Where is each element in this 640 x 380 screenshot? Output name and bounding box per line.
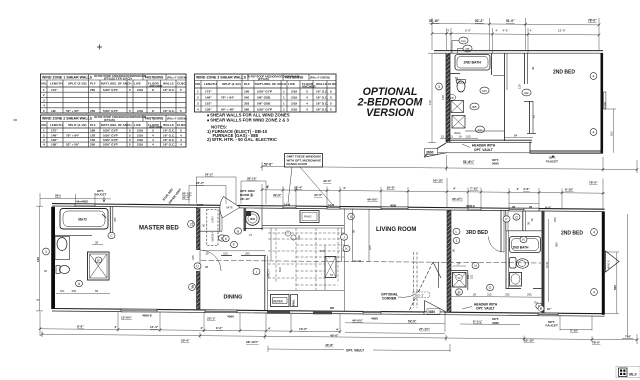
dims under closets (203, 250, 265, 252)
MLS logo box (616, 367, 640, 378)
svg-text:SPLIT (2-1/2): SPLIT (2-1/2) (68, 82, 86, 86)
svg-text:B: B (97, 258, 99, 262)
svg-text:MLS: MLS (629, 373, 637, 377)
svg-text:2ND BATH: 2ND BATH (513, 246, 530, 250)
svg-text:172": 172" (51, 88, 58, 92)
svg-text:16" O.C.: 16" O.C. (163, 88, 175, 92)
svg-text:1: 1 (283, 101, 285, 105)
svg-text:DRY: DRY (211, 216, 215, 222)
svg-text:152": 152" (205, 101, 212, 105)
bath right wall (504, 53, 506, 141)
svg-text:2ND BED: 2ND BED (553, 70, 575, 76)
bath/tub wall (491, 53, 493, 75)
shower master with X (88, 252, 110, 280)
3rd bed left shear wall (hatched) (447, 210, 451, 312)
svg-text:FAUCET: FAUCET (95, 193, 107, 197)
circled P (503, 216, 510, 222)
toilet upper bath (457, 81, 465, 92)
circled 3 main (453, 237, 459, 243)
svg-text:2/19: 2/19 (291, 95, 297, 99)
top wall upper plan (434, 50, 603, 52)
shear wall table 3 (195, 74, 338, 112)
svg-text:(P/N x 4" SCREW): (P/N x 4" SCREW) (167, 76, 187, 79)
optional corner dashed wall verticals (413, 252, 415, 308)
wall master bath / master bed (109, 207, 111, 234)
svg-text:130: 130 (36, 257, 40, 262)
door arc master bed (200, 250, 221, 271)
svg-text:78'-0": 78'-0" (589, 180, 598, 184)
left shear wall (hatched) upper plan (446, 53, 450, 142)
svg-text:4: 4 (197, 107, 199, 111)
svg-text:2: 2 (43, 133, 45, 137)
pantry (291, 295, 298, 307)
circled J (341, 234, 348, 240)
svg-text:BB: BB (472, 105, 476, 109)
svg-text:4'-6": 4'-6" (503, 29, 509, 33)
svg-text:5'-5": 5'-5" (465, 29, 471, 33)
svg-text:1: 1 (43, 129, 45, 133)
svg-text:810: 810 (278, 267, 282, 272)
svg-text:5: 5 (330, 101, 332, 105)
water heater closet walls (244, 208, 247, 231)
svg-text:■ SHEAR WALLS FOR WIND ZONE 2: ■ SHEAR WALLS FOR WIND ZONE 2 & 3 (207, 117, 290, 122)
svg-text:78" + 84": 78" + 84" (221, 95, 235, 99)
svg-text:321: 321 (470, 274, 474, 279)
svg-text:36x72: 36x72 (78, 218, 87, 222)
svg-text:4': 4' (496, 29, 499, 33)
bath interior dims (37, 241, 99, 303)
circled 3 left (436, 83, 443, 90)
hall/dining wall (241, 255, 266, 257)
circled E (219, 235, 226, 241)
svg-text:8: 8 (152, 109, 154, 113)
2nd bed left wall main (542, 211, 545, 313)
svg-text:(P/N x 4" SCREW): (P/N x 4" SCREW) (167, 118, 187, 121)
svg-text:20'-4": 20'-4" (182, 196, 191, 200)
svg-text:WIND ZONE 1 SHEAR WALLS: WIND ZONE 1 SHEAR WALLS (42, 75, 93, 79)
circled CC (475, 126, 484, 133)
svg-text:15: 15 (441, 134, 445, 138)
svg-text:REFER: REFER (273, 299, 282, 303)
svg-text:52" + 56": 52" + 56" (66, 143, 80, 147)
svg-text:5: 5 (129, 129, 131, 133)
svg-text:5/16" GYP: 5/16" GYP (257, 107, 272, 111)
svg-text:5/16" GYP: 5/16" GYP (103, 109, 118, 113)
svg-text:O: O (489, 286, 492, 290)
svg-text:3080-E: 3080-E (466, 204, 475, 208)
svg-text:105: 105 (466, 134, 471, 138)
svg-text:4': 4' (343, 186, 346, 190)
svg-text:4: 4 (152, 133, 154, 137)
svg-text:51'-6½": 51'-6½" (463, 160, 475, 164)
stray plus mark (97, 45, 102, 50)
svg-text:21: 21 (450, 134, 454, 138)
svg-text:138: 138 (441, 95, 445, 100)
bottom wall main plan (52, 309, 605, 314)
svg-text:16" O.C.: 16" O.C. (316, 95, 328, 99)
svg-text:28: 28 (473, 292, 476, 296)
svg-text:L: L (456, 230, 458, 234)
svg-text:1496: 1496 (603, 101, 607, 108)
svg-text:20'-4": 20'-4" (181, 338, 190, 342)
svg-text:3: 3 (152, 129, 154, 133)
svg-text:2/19: 2/19 (137, 143, 143, 147)
svg-text:5/16" GYP: 5/16" GYP (103, 133, 118, 137)
svg-text:4': 4' (266, 186, 269, 190)
svg-text:PLF: PLF (90, 123, 96, 127)
svg-text:4: 4 (180, 138, 182, 142)
svg-text:(FT/LB): (FT/LB) (258, 77, 269, 81)
svg-text:FP: FP (450, 96, 454, 100)
svg-text:250: 250 (553, 217, 557, 222)
circled 4 upper right a (590, 73, 597, 80)
svg-text:163: 163 (320, 249, 325, 253)
svg-text:55'-10": 55'-10" (429, 19, 440, 23)
svg-text:RANG: RANG (304, 215, 312, 219)
svg-text:4: 4 (306, 107, 308, 111)
NOTES (207, 113, 290, 143)
svg-text:315: 315 (487, 292, 492, 296)
svg-text:(P/N x 4" SCREW): (P/N x 4" SCREW) (310, 77, 330, 80)
svg-text:108": 108" (51, 143, 58, 147)
svg-text:FASTENING: FASTENING (145, 75, 164, 79)
svg-text:2/19: 2/19 (137, 133, 143, 137)
svg-text:4: 4 (180, 143, 182, 147)
svg-text:8: 8 (350, 215, 352, 219)
omit windows note box (285, 154, 323, 168)
svg-text:16" O.C.: 16" O.C. (163, 143, 175, 147)
svg-text:4': 4' (268, 327, 271, 331)
svg-text:98: 98 (352, 229, 356, 233)
svg-text:84: 84 (191, 284, 195, 288)
mate line (201, 260, 541, 263)
svg-text:MAT'L/DEL OF ANCH: MAT'L/DEL OF ANCH (101, 82, 131, 86)
circled 2 b (189, 284, 196, 291)
svg-text:5: 5 (129, 109, 131, 113)
water heater WH (246, 212, 260, 226)
svg-text:ANCHOR: ANCHOR (302, 85, 316, 89)
svg-text:PLF: PLF (90, 82, 96, 86)
24 dim closet (453, 265, 467, 267)
svg-text:J: J (343, 235, 345, 239)
svg-text:52'-0": 52'-0" (408, 319, 417, 323)
svg-text:10": 10" (547, 307, 552, 311)
circled I (253, 268, 260, 274)
svg-text:5: 5 (330, 107, 332, 111)
svg-text:16" O.C.: 16" O.C. (316, 101, 328, 105)
svg-text:3: 3 (197, 101, 199, 105)
master bath tub 36x72 (60, 209, 108, 230)
svg-text:4: 4 (180, 133, 182, 137)
svg-text:NO.: NO. (195, 82, 201, 86)
svg-text:FB: FB (466, 47, 470, 51)
circled M (456, 289, 463, 295)
sink oval master (57, 238, 67, 251)
circled N (472, 262, 479, 268)
svg-text:4': 4' (115, 325, 118, 329)
svg-text:55'-10": 55'-10" (433, 179, 444, 183)
svg-text:LIVE: LIVE (134, 123, 141, 127)
svg-text:DD: DD (482, 89, 487, 93)
circled GG with leader (459, 37, 468, 44)
svg-text:5/16" GYP: 5/16" GYP (103, 143, 118, 147)
svg-text:500: 500 (244, 95, 249, 99)
svg-text:GG: GG (461, 39, 466, 43)
svg-text:LENGTH: LENGTH (50, 123, 63, 127)
svg-text:2/19: 2/19 (137, 129, 143, 133)
circled B in shower (95, 257, 101, 263)
svg-text:MASTER BED: MASTER BED (139, 226, 179, 232)
svg-text:MAT'L/DEL OF ANCH: MAT'L/DEL OF ANCH (255, 82, 287, 86)
svg-text:67: 67 (532, 114, 536, 118)
svg-text:4: 4 (43, 143, 45, 147)
svg-text:14: 14 (459, 134, 463, 138)
kitchen sink bowls (285, 231, 290, 236)
svg-text:48: 48 (531, 66, 535, 70)
svg-text:128: 128 (518, 84, 522, 89)
circled L (453, 228, 460, 234)
svg-text:15'-0": 15'-0" (387, 186, 396, 190)
svg-text:335: 335 (505, 292, 510, 296)
upper dim row 2 (432, 28, 599, 53)
svg-text:A: A (78, 282, 81, 286)
svg-text:WALLS: WALLS (316, 82, 327, 86)
svg-text:2: 2 (197, 95, 199, 99)
svg-text:5: 5 (330, 89, 332, 93)
svg-text:3: 3 (43, 98, 45, 102)
svg-text:G: G (237, 229, 240, 233)
svg-text:180: 180 (90, 129, 95, 133)
svg-text:2) WTR. HTR. - 50 GAL. ELECTR: 2) WTR. HTR. - 50 GAL. ELECTRIC (207, 137, 277, 142)
svg-text:5: 5 (180, 129, 182, 133)
svg-text:52'-8": 52'-8" (264, 163, 273, 167)
svg-text:1: 1 (283, 95, 285, 99)
circled BB (470, 103, 479, 110)
svg-text:32'-0": 32'-0" (273, 193, 282, 197)
door 3680 bottom living (424, 312, 445, 315)
svg-text:W: W (458, 276, 461, 280)
svg-text:1046: 1046 (545, 261, 549, 268)
svg-text:NO.: NO. (41, 123, 47, 127)
svg-text:FASTENING: FASTENING (145, 117, 164, 121)
shower upper bath (451, 101, 464, 113)
svg-text:3: 3 (438, 85, 440, 89)
circled FP (448, 95, 455, 101)
circled K (343, 245, 350, 251)
svg-text:OPT. VAULT: OPT. VAULT (474, 148, 493, 152)
svg-text:PAN.: PAN. (292, 299, 296, 306)
svg-text:43'-8": 43'-8" (325, 343, 334, 347)
svg-text:52L: 52L (60, 289, 65, 293)
svg-text:38: 38 (205, 265, 209, 269)
svg-text:WIND ZONE 2 SHEAR WALLS: WIND ZONE 2 SHEAR WALLS (42, 117, 93, 121)
svg-text:DD: DD (330, 306, 335, 310)
window 1440 top a (283, 206, 296, 209)
svg-text:5/16" GYP: 5/16" GYP (103, 88, 118, 92)
svg-text:295: 295 (527, 292, 532, 296)
svg-text:SPLIT (2-1/2): SPLIT (2-1/2) (68, 123, 86, 127)
circled O (487, 284, 494, 290)
svg-text:4060-E: 4060-E (607, 260, 611, 269)
svg-text:2/19: 2/19 (137, 138, 143, 142)
svg-text:F: F (233, 243, 235, 247)
svg-text:5/8" OSB: 5/8" OSB (257, 95, 271, 99)
door 3080-E top (468, 208, 481, 211)
circled FB with leader (463, 45, 472, 52)
entry door leaf top (220, 197, 240, 218)
range (300, 211, 319, 223)
svg-text:27'-1½": 27'-1½" (419, 327, 431, 331)
svg-text:LIVING ROOM: LIVING ROOM (376, 227, 416, 233)
svg-text:250: 250 (90, 88, 95, 92)
svg-text:4: 4 (593, 131, 595, 135)
svg-text:3660: 3660 (426, 150, 434, 154)
dryer closet (207, 210, 218, 246)
bottom dim rows (77, 313, 632, 347)
svg-text:44'-0½": 44'-0½" (367, 198, 379, 202)
svg-text:5'-10": 5'-10" (570, 328, 579, 332)
svg-text:53: 53 (330, 273, 333, 277)
window 4060 top living (381, 207, 408, 210)
svg-text:182'-3": 182'-3" (415, 293, 424, 297)
svg-text:SCHM: SCHM (353, 259, 362, 263)
svg-text:7'-10": 7'-10" (470, 187, 479, 191)
svg-text:5: 5 (180, 109, 182, 113)
svg-text:FASTENING: FASTENING (285, 76, 304, 80)
svg-text:42'-6": 42'-6" (323, 179, 332, 183)
svg-text:4: 4 (152, 143, 154, 147)
circled C (108, 232, 115, 238)
svg-text:28'-10½": 28'-10½" (246, 340, 259, 344)
svg-text:1: 1 (283, 89, 285, 93)
svg-text:(FT/LB) TYP. EACH: (FT/LB) TYP. EACH (104, 77, 133, 81)
circled B dim bottom (538, 306, 544, 312)
svg-text:38'-10": 38'-10" (240, 197, 251, 201)
svg-text:CLNG: CLNG (177, 123, 186, 127)
bottom wall bath section (446, 139, 532, 141)
tick verticals top dim (261, 184, 263, 208)
closet right wall (219, 208, 221, 231)
optional corner diagonal (409, 262, 433, 311)
circled 4 upper right b (590, 129, 597, 136)
svg-text:16" O.C.: 16" O.C. (163, 109, 175, 113)
svg-text:16" O.C.: 16" O.C. (163, 133, 175, 137)
svg-text:CLNG: CLNG (328, 82, 337, 86)
2nd bath shower (510, 273, 522, 287)
svg-text:84: 84 (514, 134, 518, 138)
svg-text:3470: 3470 (197, 203, 204, 207)
svg-text:4060-E: 4060-E (142, 313, 152, 317)
svg-text:4: 4 (152, 138, 154, 142)
svg-text:4'-4": 4'-4" (545, 205, 552, 209)
svg-text:78'-0": 78'-0" (592, 341, 601, 345)
svg-text:30 PSF ROOF ANCHORAGE/DIAPHRAG: 30 PSF ROOF ANCHORAGE/DIAPHRAGM (94, 115, 147, 119)
3rd bed bottom dims (451, 295, 541, 298)
svg-text:LIVE: LIVE (288, 82, 295, 86)
right exterior shear wall (black) (602, 212, 605, 315)
svg-text:6: 6 (225, 237, 227, 241)
svg-text:280: 280 (244, 107, 249, 111)
svg-text:28'-10": 28'-10" (247, 177, 257, 181)
svg-text:52'-2": 52'-2" (475, 19, 484, 23)
28/28 dim line 3rd bed (509, 202, 539, 204)
svg-text:WALLS: WALLS (163, 82, 174, 86)
svg-text:5/16" GYP: 5/16" GYP (257, 89, 272, 93)
svg-text:295: 295 (245, 252, 250, 256)
svg-text:60: 60 (202, 223, 206, 227)
svg-text:2ND BED: 2ND BED (561, 231, 583, 237)
svg-text:38: 38 (527, 221, 531, 225)
window 1440 top b (327, 206, 340, 209)
svg-text:650: 650 (610, 131, 614, 136)
circled EE (522, 89, 531, 96)
circled 2 a (188, 221, 195, 228)
svg-text:3080: 3080 (492, 162, 499, 166)
svg-text:I: I (256, 270, 257, 274)
svg-text:8'-1⅜": 8'-1⅜" (473, 319, 483, 323)
svg-text:322: 322 (466, 274, 470, 279)
svg-text:165: 165 (368, 245, 372, 250)
svg-text:206: 206 (72, 289, 77, 293)
svg-text:64" + 48": 64" + 48" (221, 107, 235, 111)
dark window bottom kitchen b (313, 311, 332, 315)
2nd bath tub main (510, 237, 541, 253)
svg-text:4': 4' (453, 186, 456, 190)
svg-text:8'-6": 8'-6" (77, 325, 84, 329)
svg-text:4: 4 (593, 75, 595, 79)
circled 6 (223, 235, 229, 241)
svg-text:080: 080 (555, 242, 559, 247)
circled 4 main b (591, 289, 598, 296)
svg-text:59: 59 (95, 289, 99, 293)
svg-text:16" O.C.: 16" O.C. (163, 138, 175, 142)
svg-text:5/16" GYP: 5/16" GYP (103, 129, 118, 133)
kitchen counters top (262, 225, 344, 227)
svg-text:44'-0½": 44'-0½" (352, 318, 364, 322)
shear wall table 1 (41, 74, 187, 113)
linen closet with X (452, 116, 465, 129)
2nd bath tub (455, 55, 490, 71)
svg-text:12'-0½": 12'-0½" (121, 315, 133, 319)
window bottom 2nd bed (538, 313, 558, 316)
svg-text:Q: Q (515, 215, 518, 219)
kitchen dim texts (278, 235, 333, 277)
circled 8 (348, 213, 355, 220)
window marker right wall (604, 92, 606, 109)
svg-text:WALLS: WALLS (163, 123, 174, 127)
svg-text:5: 5 (129, 133, 131, 137)
circled Q (513, 214, 520, 220)
svg-text:4060: 4060 (227, 314, 234, 318)
svg-text:5: 5 (129, 138, 131, 142)
window 4060 bottom living (363, 311, 381, 314)
svg-text:28: 28 (206, 252, 210, 256)
wall under tub (55, 235, 92, 237)
svg-text:SPLIT (2-1/2): SPLIT (2-1/2) (222, 82, 241, 86)
svg-text:(FT/LB): (FT/LB) (104, 118, 115, 122)
3rd bed closet with X (451, 270, 468, 272)
svg-text:315: 315 (223, 252, 228, 256)
svg-text:52" + 60": 52" + 60" (66, 109, 80, 113)
svg-text:16" O.C.: 16" O.C. (316, 89, 328, 93)
svg-text:51'-0": 51'-0" (506, 19, 515, 23)
circled G (235, 228, 242, 234)
svg-text:2ND BATH: 2ND BATH (464, 61, 482, 65)
entry door leaf bottom 3680 (424, 301, 426, 313)
svg-text:EE: EE (524, 91, 528, 95)
svg-text:303: 303 (244, 101, 249, 105)
svg-text:11'-4": 11'-4" (150, 325, 159, 329)
